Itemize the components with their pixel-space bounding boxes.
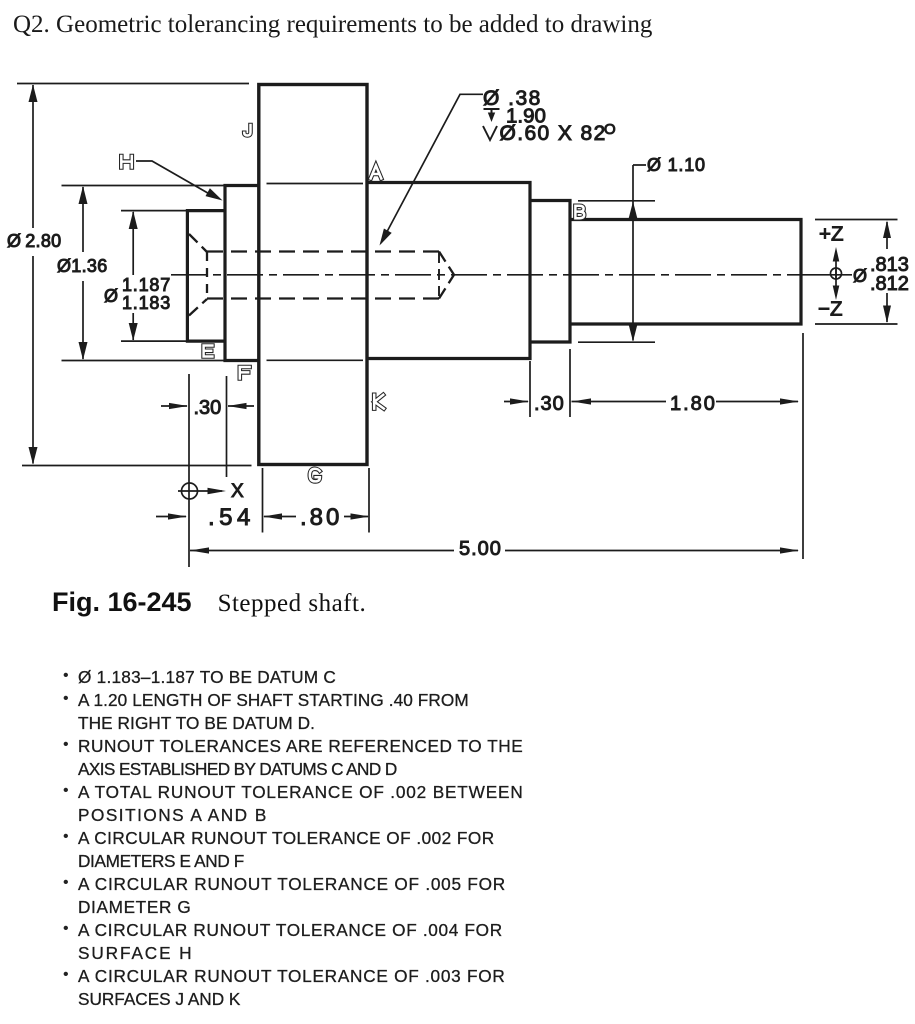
extension lines Ø1.36 [62, 186, 226, 361]
drill point lower [439, 275, 454, 299]
svg-text:O: O [604, 121, 616, 138]
svg-text:1.183: 1.183 [122, 293, 171, 313]
-Z arrow [835, 267, 837, 295]
+Z arrow [835, 252, 837, 280]
drill point upper [439, 252, 454, 275]
extension lines Ø1.10 [578, 201, 655, 342]
extension line below E face [188, 374, 190, 567]
label B [575, 206, 584, 218]
hidden hole lower wall [207, 297, 439, 299]
depth symbol [484, 109, 500, 114]
svg-text:.80: .80 [300, 504, 342, 531]
shaft section A-B [367, 183, 530, 359]
centerline [171, 274, 798, 276]
dimension Ø1.10 line [633, 165, 646, 341]
dimension Ø2.80 line [32, 85, 34, 464]
svg-text:Ø.60 X 82: Ø.60 X 82 [500, 122, 607, 145]
datum origin circle [182, 483, 198, 499]
label E [204, 346, 213, 357]
label J [244, 125, 250, 136]
svg-text:Ø: Ø [853, 266, 868, 286]
countersink cone upper [189, 234, 207, 252]
leader H [136, 161, 213, 196]
label H [121, 156, 132, 168]
dimension .80 [264, 516, 368, 518]
X axis arrow [178, 490, 222, 492]
label F [240, 367, 250, 379]
extension lines .30 right [530, 349, 570, 417]
countersink cone lower [189, 299, 207, 316]
svg-text:Ø: Ø [104, 286, 119, 306]
label A [371, 166, 382, 179]
extension line top (flange OD) [17, 83, 249, 85]
countersink transition dashed [206, 252, 208, 299]
flange J (large disk) [259, 85, 367, 465]
hidden hole upper wall [207, 250, 439, 252]
svg-text:.30: .30 [534, 393, 565, 415]
right shaft section [570, 220, 801, 325]
datum target circle Z [831, 268, 842, 279]
dimension 1.80 [572, 401, 799, 403]
label K [374, 395, 384, 409]
extension lines Ø1.187 [121, 211, 187, 342]
visible edge line through flange (bottom) [267, 359, 364, 361]
svg-text:Ø 2.80: Ø 2.80 [7, 231, 61, 251]
dimension .30 left [161, 405, 254, 407]
svg-text:Ø 1.10: Ø 1.10 [647, 155, 706, 175]
drill point vertical tick [438, 252, 440, 296]
svg-text:.54: .54 [208, 504, 255, 531]
shaft collar H [225, 186, 259, 361]
extension lines .813 [815, 220, 898, 325]
svg-text:−Z: −Z [818, 298, 843, 321]
extension line right end [802, 333, 804, 559]
countersink symbol [483, 126, 497, 140]
svg-text:Ø1.36: Ø1.36 [57, 256, 108, 276]
label G [310, 469, 320, 482]
leader Ø.38 [381, 94, 483, 243]
collar B [530, 201, 570, 343]
svg-text:1.187: 1.187 [122, 275, 171, 295]
shaft section E (left small cylinder) [187, 211, 225, 342]
dimension .813/.812 line [886, 222, 888, 322]
dimension 5.00 [190, 550, 798, 552]
extension line below collar H [226, 376, 228, 477]
svg-text:.812: .812 [870, 273, 909, 295]
extension lines .80 [263, 468, 370, 533]
svg-text:+Z: +Z [819, 223, 844, 246]
dimension Ø1.36 line [82, 187, 84, 359]
centerline solid right end [798, 274, 852, 276]
svg-text:5.00: 5.00 [459, 538, 502, 560]
dimension .54 [156, 516, 186, 518]
svg-text:.30: .30 [194, 397, 222, 419]
svg-text:X: X [231, 481, 244, 502]
dimension Ø1.187/1.183 line [132, 212, 134, 340]
extension line bottom (flange OD) [22, 465, 252, 467]
svg-text:1.80: 1.80 [670, 393, 717, 415]
visible edge line through flange (top) [267, 183, 364, 185]
dimension .30 right [504, 401, 528, 403]
